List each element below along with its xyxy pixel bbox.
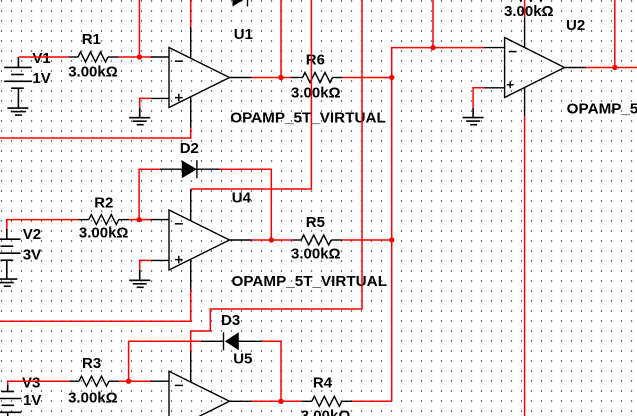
svg-text:3.00kΩ: 3.00kΩ xyxy=(504,3,554,20)
node B junction xyxy=(278,75,283,80)
wire U4 V+ pin to top via x=311.4 xyxy=(191,0,312,189)
wire U2 V- pin to bottom xyxy=(524,116,526,416)
svg-text:R5: R5 xyxy=(306,214,325,231)
wire R2 to node E xyxy=(129,219,151,221)
node D junction xyxy=(612,65,617,70)
ground (V2) xyxy=(0,279,17,286)
resistor R5 xyxy=(292,235,342,245)
wire D2 cathode to node F xyxy=(220,169,272,240)
svg-text:R6: R6 xyxy=(306,52,325,69)
wire R5 to node G xyxy=(342,239,392,241)
wire U2 V+ pin to top xyxy=(524,0,526,17)
resistor R4 xyxy=(302,396,353,406)
svg-text:3.00kΩ: 3.00kΩ xyxy=(79,225,129,242)
svg-text:OPAMP_5T_VIRTUAL: OPAMP_5T_VIRTUAL xyxy=(567,100,637,117)
wire R3 to node H xyxy=(119,380,151,382)
node I junction xyxy=(278,399,283,404)
wire node C to U2 inverting input xyxy=(392,48,485,78)
ground (U1 positive input) xyxy=(129,107,150,124)
wire U4 output to node F xyxy=(252,239,293,241)
wire vertical from top to node D xyxy=(614,0,616,68)
node F junction xyxy=(269,237,274,242)
svg-text:3.00kΩ: 3.00kΩ xyxy=(301,408,351,416)
resistor R2 xyxy=(78,215,129,225)
wire node D to right edge xyxy=(615,67,637,69)
svg-text:D3: D3 xyxy=(221,312,240,329)
wire R1 to node A xyxy=(119,56,151,58)
voltage source V2 xyxy=(0,229,20,279)
node E junction xyxy=(136,217,141,222)
node H junction xyxy=(126,379,131,384)
svg-text:R4: R4 xyxy=(313,374,333,391)
resistor above canvas (partially visible) xyxy=(513,0,543,1)
svg-text:D2: D2 xyxy=(180,140,199,157)
wire U5 V+ supply step to top xyxy=(191,0,362,352)
ground (U2 positive input) xyxy=(463,108,484,125)
wire U2 positive input to ground stub xyxy=(473,88,484,108)
svg-text:OPAMP_5T_VIRTUAL: OPAMP_5T_VIRTUAL xyxy=(232,273,388,290)
voltage source V1 xyxy=(4,57,32,108)
op-amp U2 xyxy=(484,17,586,116)
ground (U4 positive input) xyxy=(129,270,150,288)
svg-text:3.00kΩ: 3.00kΩ xyxy=(291,85,341,102)
diode D3 xyxy=(201,332,262,350)
wire V3 to R3 xyxy=(8,381,69,384)
svg-text:3.00kΩ: 3.00kΩ xyxy=(291,245,341,262)
svg-text:V1: V1 xyxy=(32,50,50,67)
op-amp U5 (partially clipped at bottom) xyxy=(150,352,251,416)
wire U4 V- pin to left edge xyxy=(0,290,191,322)
svg-text:1V: 1V xyxy=(32,70,50,87)
svg-text:3V: 3V xyxy=(23,246,41,263)
wire U2 output to node D xyxy=(586,67,615,69)
wire vertical from top to node A xyxy=(138,0,140,57)
wire D3 cathode to node H xyxy=(129,341,201,381)
op-amp U1 xyxy=(150,27,251,128)
resistor R1 xyxy=(68,52,118,62)
svg-text:U4: U4 xyxy=(232,189,252,206)
svg-text:V2: V2 xyxy=(23,226,41,243)
wire U1 V- pin to left edge xyxy=(0,128,191,138)
wire U1 V+ pin to top xyxy=(190,0,192,27)
node A junction xyxy=(137,54,142,59)
resistor R3 xyxy=(69,376,119,386)
node C junction xyxy=(389,75,394,80)
svg-text:1V: 1V xyxy=(23,392,41,409)
wire U5 output to node I xyxy=(252,400,302,402)
wire D2 anode to node E xyxy=(139,169,160,219)
svg-text:U2: U2 xyxy=(566,17,585,34)
wire D3 anode to node I xyxy=(262,341,281,401)
wire R6 to node C xyxy=(343,77,392,79)
svg-text:R2: R2 xyxy=(94,194,113,211)
junction on U2 inverting net xyxy=(430,45,435,50)
wire U1 output to node B xyxy=(252,77,291,79)
wire U1 positive input to ground stub xyxy=(140,98,151,107)
wire V2 to R2 xyxy=(7,220,78,229)
resistor R6 xyxy=(291,73,343,83)
wire bus node C to node G to R4 xyxy=(391,78,393,402)
diode D2 xyxy=(160,160,220,178)
svg-text:3.00kΩ: 3.00kΩ xyxy=(68,390,118,407)
voltage source V3 xyxy=(0,385,21,416)
wire vertical from top joining U2 inverting net xyxy=(432,0,434,48)
svg-text:U1: U1 xyxy=(234,26,253,43)
wire vertical from top to node B xyxy=(280,0,282,78)
diode D1 (partially off-canvas) xyxy=(233,0,248,7)
wire R4 to bus xyxy=(352,400,391,402)
svg-text:V3: V3 xyxy=(22,374,40,391)
node G junction xyxy=(389,237,394,242)
op-amp U4 xyxy=(150,189,251,290)
svg-text:U5: U5 xyxy=(233,351,252,368)
wire V1 to R1 xyxy=(18,56,68,58)
svg-text:R1: R1 xyxy=(82,31,101,48)
svg-text:R3: R3 xyxy=(82,355,101,372)
ground (V1) xyxy=(7,108,28,115)
wire U4 positive input to ground stub xyxy=(140,260,151,269)
svg-text:3.00kΩ: 3.00kΩ xyxy=(68,63,118,80)
